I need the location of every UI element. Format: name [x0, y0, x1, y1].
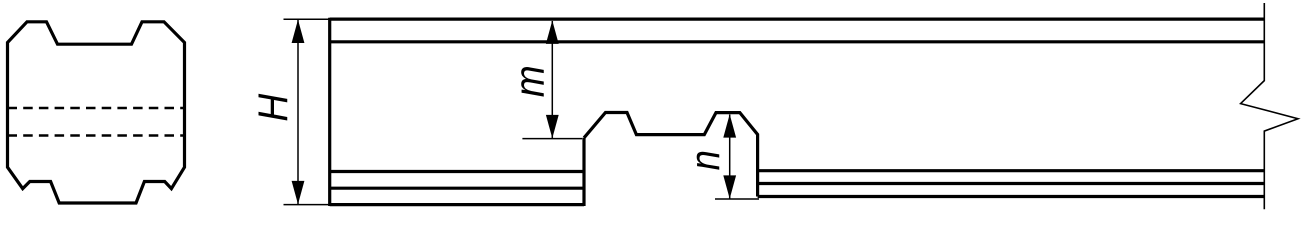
dimension n arrowhead down [723, 175, 736, 198]
middle raised profile with two lugs [584, 113, 758, 197]
right section bottom edge [758, 195, 1265, 198]
side view top edge [330, 18, 1265, 21]
dimension H line [297, 20, 299, 204]
right section plate line 1 [758, 169, 1265, 172]
step vertical edge [582, 138, 585, 206]
dimension H extension line bottom [284, 204, 331, 206]
dimension m arrowhead up [546, 21, 559, 44]
break line zigzag at right end [1241, 3, 1298, 209]
dashed hidden line 1 [8, 107, 185, 109]
svg-text:m: m [506, 65, 553, 97]
dimension m arrowhead down [546, 115, 559, 138]
left section bottom edge [330, 203, 584, 206]
dimension n arrowhead up [723, 114, 736, 137]
dimension m line [551, 21, 553, 138]
side view second top line [331, 40, 1264, 43]
dimension m extension line [522, 138, 582, 140]
rail cross-section outline (front view) [8, 22, 185, 203]
dimension n line [729, 115, 731, 199]
left section plate line 1 [330, 170, 584, 173]
dashed hidden line 2 [8, 134, 185, 136]
dimension H arrowhead down [292, 181, 305, 204]
dimension n extension line [715, 198, 759, 200]
right section plate line 2 [758, 182, 1265, 185]
svg-text:H: H [249, 93, 296, 122]
side view left edge [328, 18, 331, 206]
svg-text:n: n [681, 150, 728, 170]
dimension H extension line top [284, 18, 331, 20]
left section plate line 2 [330, 187, 584, 190]
dimension H arrowhead up [292, 20, 305, 43]
